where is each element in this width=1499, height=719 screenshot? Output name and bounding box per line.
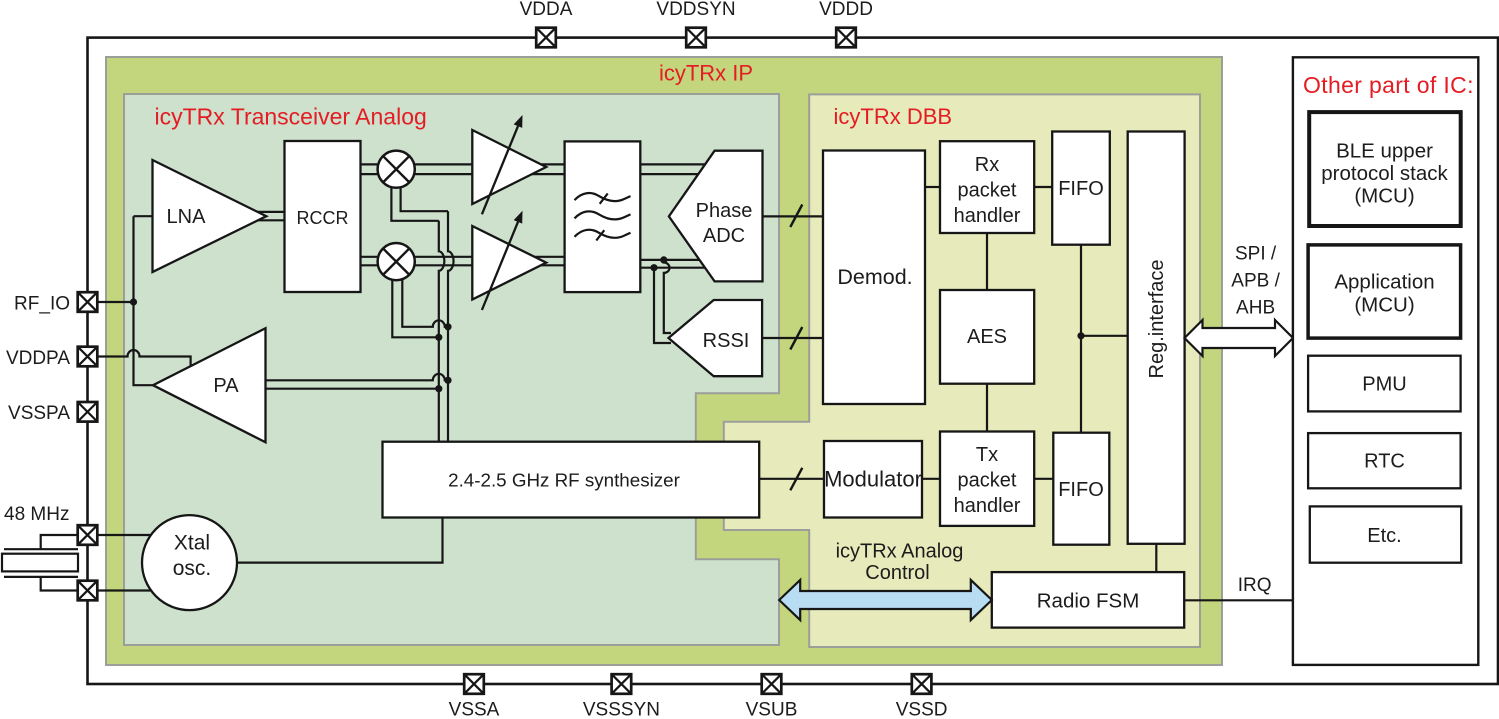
junction dot mixer2 right on B <box>444 323 451 330</box>
pad 48MHz bottom <box>78 581 98 601</box>
icyTRx IP region (olive) <box>106 57 1222 665</box>
pad RF_IO <box>78 292 98 312</box>
svg-text:FIFO: FIFO <box>1058 479 1104 501</box>
junction dot FIFO line <box>1077 332 1084 339</box>
svg-text:AHB: AHB <box>1236 298 1275 319</box>
bus slash RSSI-Demod <box>790 327 802 350</box>
wire VDDPA to PA (with hop) <box>98 350 191 366</box>
svg-text:RF_IO: RF_IO <box>14 294 70 315</box>
RCCR block <box>285 141 361 292</box>
svg-text:handler: handler <box>954 495 1021 517</box>
pad VDDA <box>536 28 556 48</box>
svg-text:Etc.: Etc. <box>1367 525 1401 547</box>
bus slash Phase ADC-Demod <box>790 205 802 228</box>
wire 48MHz pad1 to xtal osc <box>98 534 153 536</box>
wire LNA input vertical column <box>134 216 155 385</box>
wire filter to Phase ADC bottom pair <box>640 260 706 268</box>
svg-text:Rx: Rx <box>975 154 999 176</box>
svg-text:packet: packet <box>958 470 1017 492</box>
svg-text:icyTRx IP: icyTRx IP <box>659 61 753 86</box>
wire Rx packet handler to FIFO <box>1034 186 1052 188</box>
wire RX I pair RCCR to filter (through mixer1, VGA1) <box>361 164 565 174</box>
wire synthesizer to Modulator <box>759 478 824 480</box>
wire Demod to Rx packet handler <box>925 186 940 188</box>
wire filter to Phase ADC top pair <box>640 164 706 174</box>
pad VSSPA <box>78 402 98 422</box>
svg-text:VDDPA: VDDPA <box>6 348 70 369</box>
junction dot filter out top <box>660 256 667 263</box>
Modulator block <box>824 441 922 518</box>
svg-text:VDDD: VDDD <box>819 0 873 20</box>
SPI/APB/AHB arrow (white) <box>1185 244 1294 357</box>
svg-text:VDDSYN: VDDSYN <box>656 0 735 20</box>
Rx packet handler block <box>940 141 1034 233</box>
AES block <box>940 290 1034 384</box>
svg-text:handler: handler <box>954 205 1021 227</box>
BLE upper protocol stack block <box>1309 112 1461 226</box>
pad VSUB <box>762 674 782 694</box>
svg-text:(MCU): (MCU) <box>1354 185 1414 208</box>
svg-text:VSSD: VSSD <box>896 700 948 719</box>
svg-text:Other part of IC:: Other part of IC: <box>1303 72 1474 98</box>
svg-text:RSSI: RSSI <box>703 330 750 352</box>
svg-text:VDDA: VDDA <box>520 0 573 20</box>
Demod block <box>823 151 925 405</box>
pad 48MHz top <box>78 525 98 545</box>
Reg.interface block <box>1128 132 1185 544</box>
filter block <box>565 141 641 292</box>
wire Reg.interface to Radio FSM <box>1155 544 1157 572</box>
svg-text:AES: AES <box>967 326 1007 348</box>
wire RSSI feeder A <box>664 260 671 333</box>
VGA2 variable gain amplifier <box>472 211 546 310</box>
wire xtal osc to synthesizer <box>237 518 443 563</box>
svg-text:RCCR: RCCR <box>297 208 349 228</box>
wire Radio FSM IRQ line <box>1184 599 1293 601</box>
svg-text:RTC: RTC <box>1364 451 1405 473</box>
Tx packet handler block <box>940 432 1034 526</box>
svg-text:Modulator: Modulator <box>824 467 922 492</box>
wire mixer1 LO down-right leg <box>401 185 448 211</box>
wire LO vertical A with hop over Q pair <box>439 221 445 442</box>
svg-text:48 MHz: 48 MHz <box>4 504 69 525</box>
svg-text:osc.: osc. <box>173 557 212 580</box>
svg-text:LNA: LNA <box>167 206 207 228</box>
wire crystal pad1 connector <box>41 535 78 549</box>
pad VDDSYN <box>686 28 706 48</box>
svg-text:packet: packet <box>958 180 1017 202</box>
Radio FSM block <box>992 572 1184 628</box>
junction dot PA top on B <box>444 377 451 384</box>
crystal component <box>2 549 78 577</box>
svg-text:IRQ: IRQ <box>1238 575 1272 596</box>
RF synthesizer block <box>383 442 760 518</box>
wire FIFO down to FIFO2 <box>1080 245 1082 433</box>
pad VDDD <box>836 28 856 48</box>
Etc. block <box>1310 506 1461 562</box>
PMU block <box>1308 356 1461 412</box>
wire Tx packet handler to FIFO2 <box>1034 478 1053 480</box>
wire RF_IO pad to LNA input column <box>98 301 134 303</box>
svg-text:VSSSYN: VSSSYN <box>583 700 660 719</box>
Application MCU block <box>1308 245 1461 338</box>
svg-text:VSSA: VSSA <box>449 700 500 719</box>
svg-text:icyTRx Transceiver Analog: icyTRx Transceiver Analog <box>155 104 427 130</box>
mixer M2 <box>378 243 415 280</box>
RTC block <box>1308 433 1461 488</box>
icyTRx Transceiver Analog region (green) <box>124 94 779 645</box>
svg-text:icyTRx DBB: icyTRx DBB <box>834 104 953 129</box>
wire LNA output pair to RCCR <box>256 212 285 220</box>
wire 48MHz pad2 to xtal osc <box>98 589 154 591</box>
mixer M1 <box>378 151 415 188</box>
LNA amplifier <box>153 160 267 272</box>
FIFO block (tx) <box>1053 433 1109 545</box>
wire RSSI to Demod <box>762 337 823 339</box>
icyTRx Analog Control arrow (blue) <box>779 541 992 621</box>
svg-text:(MCU): (MCU) <box>1354 294 1414 317</box>
pad VSSA <box>464 674 484 694</box>
svg-text:Demod.: Demod. <box>837 265 912 289</box>
svg-text:FIFO: FIFO <box>1058 178 1104 200</box>
wire PA input top (hop over A) <box>266 374 449 380</box>
junction dot RF_IO <box>130 298 137 305</box>
svg-text:Control: Control <box>865 562 929 584</box>
svg-text:VSUB: VSUB <box>746 700 798 719</box>
svg-text:2.4-2.5 GHz RF synthesizer: 2.4-2.5 GHz RF synthesizer <box>448 470 680 491</box>
svg-text:PMU: PMU <box>1362 374 1406 396</box>
Phase ADC <box>669 151 763 282</box>
wire mixer2 down-left leg <box>392 278 439 337</box>
wire LO vertical B with hop over Q pair <box>448 211 454 442</box>
svg-text:Radio FSM: Radio FSM <box>1037 590 1140 613</box>
Other part of IC box <box>1293 57 1478 665</box>
svg-text:Tx: Tx <box>976 444 998 466</box>
RSSI <box>669 300 763 376</box>
svg-text:protocol stack: protocol stack <box>1321 162 1448 185</box>
wire RSSI feeder B <box>654 268 671 343</box>
bus slash synth-Modulator <box>790 468 802 491</box>
wire Phase ADC to Demod <box>763 215 824 217</box>
svg-text:Reg.interface: Reg.interface <box>1146 260 1168 379</box>
pad VDDPA <box>78 347 98 367</box>
junction dot filter out bottom <box>650 264 657 271</box>
svg-text:Phase: Phase <box>696 200 753 222</box>
icyTRx DBB region (pale yellow) <box>724 94 1200 647</box>
wire Rx packet handler to AES <box>986 233 988 290</box>
FIFO block (rx) <box>1052 132 1110 245</box>
pad VSSSYN <box>612 674 632 694</box>
svg-text:ADC: ADC <box>703 225 745 247</box>
svg-text:Xtal: Xtal <box>174 532 210 555</box>
svg-text:BLE upper: BLE upper <box>1336 140 1433 163</box>
svg-text:SPI /: SPI / <box>1235 244 1277 265</box>
junction dot PA bottom on A <box>435 385 442 392</box>
wire mixer1 LO down-left leg <box>391 185 438 221</box>
wire RX Q pair RCCR to filter (through mixer2, VGA2) <box>361 257 565 266</box>
wire junction to Reg.interface <box>1081 335 1128 337</box>
svg-text:PA: PA <box>213 375 239 397</box>
pad VSSD <box>912 674 932 694</box>
wire mixer2 down-right leg (hop over A) <box>402 278 448 327</box>
wire AES to Tx packet handler <box>986 384 988 432</box>
Xtal oscillator <box>142 515 237 610</box>
svg-text:APB /: APB / <box>1231 271 1280 292</box>
wire PA input bottom <box>266 388 439 390</box>
svg-text:icyTRx Analog: icyTRx Analog <box>836 541 964 563</box>
wire crystal pad2 connector <box>41 577 78 591</box>
junction dot mixer2 left on A <box>435 334 442 341</box>
PA power amplifier <box>153 328 266 442</box>
wire Modulator to Tx packet handler <box>922 478 940 480</box>
svg-text:VSSPA: VSSPA <box>8 403 70 424</box>
VGA1 variable gain amplifier <box>472 115 546 214</box>
svg-text:Application: Application <box>1334 271 1434 294</box>
wire LNA input stub <box>134 215 154 217</box>
